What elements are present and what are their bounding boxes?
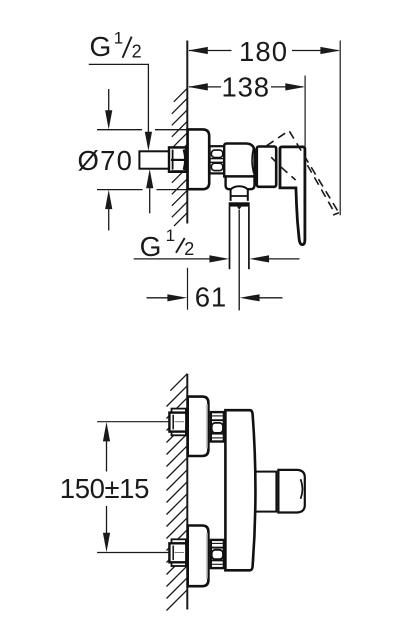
G 1/2 bottom label xyxy=(140,226,195,262)
outlet neck (plan) xyxy=(253,472,277,512)
escutcheon bottom shading xyxy=(206,533,208,579)
pipe hex nut xyxy=(169,146,186,172)
wall line (top view) xyxy=(186,41,188,224)
lever raised position (dashed) xyxy=(267,131,339,215)
wall hatching (plan view) xyxy=(167,374,188,611)
body end-cap arc xyxy=(252,148,254,173)
mixer body upper block (side view) xyxy=(224,144,254,177)
shower hose xyxy=(230,207,249,311)
svg-text:1: 1 xyxy=(166,226,175,245)
wall escutcheon bottom (plan) xyxy=(188,526,209,587)
svg-text:150±15: 150±15 xyxy=(60,473,149,504)
G 1/2 right arrow at hose xyxy=(249,255,299,262)
mixer body (plan view) xyxy=(225,410,255,570)
138 extension line (right) xyxy=(304,76,306,147)
body step line xyxy=(224,175,254,177)
180 extension line (right) xyxy=(339,41,341,216)
svg-text:G: G xyxy=(140,231,162,262)
Ø70 dimension arrows xyxy=(105,89,112,231)
G 1/2 top leader xyxy=(89,64,152,151)
wall line (plan view) xyxy=(186,374,188,610)
connection nut top (plan) xyxy=(211,412,224,441)
outlet opening arc xyxy=(301,479,303,499)
G 1/2 bottom leader with arrow to hose xyxy=(134,255,230,262)
svg-text:1: 1 xyxy=(114,29,123,48)
bottom supply center line / extension xyxy=(97,552,169,554)
svg-text:G: G xyxy=(90,31,112,62)
G 1/2 top label xyxy=(90,29,142,63)
G 1/2 pipe lower arrow xyxy=(146,169,153,213)
61 dimension xyxy=(147,268,283,313)
Ø70 dimension lines xyxy=(97,130,187,190)
svg-text:61: 61 xyxy=(195,281,227,312)
wall hatching (top view) xyxy=(172,88,188,226)
svg-text:180: 180 xyxy=(239,36,288,67)
cartridge ring (side view) xyxy=(257,147,276,187)
mixer body lower block (side view) xyxy=(226,176,255,189)
top supply center line / extension xyxy=(97,421,169,423)
svg-text:Ø70: Ø70 xyxy=(78,145,134,176)
svg-text:2: 2 xyxy=(184,239,194,259)
connection nut (side view) xyxy=(210,146,225,173)
G 1/2 supply pipe xyxy=(139,151,169,168)
outlet union band line xyxy=(231,195,248,197)
svg-text:138: 138 xyxy=(222,71,270,102)
hose connector tip xyxy=(237,207,242,210)
hot supply hex nut (wall side, top) xyxy=(169,409,186,436)
180 dimension xyxy=(188,36,340,67)
138 dimension xyxy=(188,71,305,102)
wall escutcheon Ø70 (side view) xyxy=(188,129,210,189)
wall escutcheon top (plan) xyxy=(188,397,209,456)
svg-text:2: 2 xyxy=(132,42,142,62)
lever handle (side view) xyxy=(280,147,305,245)
connection nut bottom (plan) xyxy=(211,540,224,568)
escutcheon top shading xyxy=(206,404,208,449)
outlet fitting (plan) xyxy=(278,470,304,513)
shower outlet union dome xyxy=(231,186,248,201)
cold supply hex nut (wall side, bottom) xyxy=(169,539,186,566)
outlet nut (black band) xyxy=(229,202,250,206)
150±15 dimension xyxy=(60,422,149,552)
